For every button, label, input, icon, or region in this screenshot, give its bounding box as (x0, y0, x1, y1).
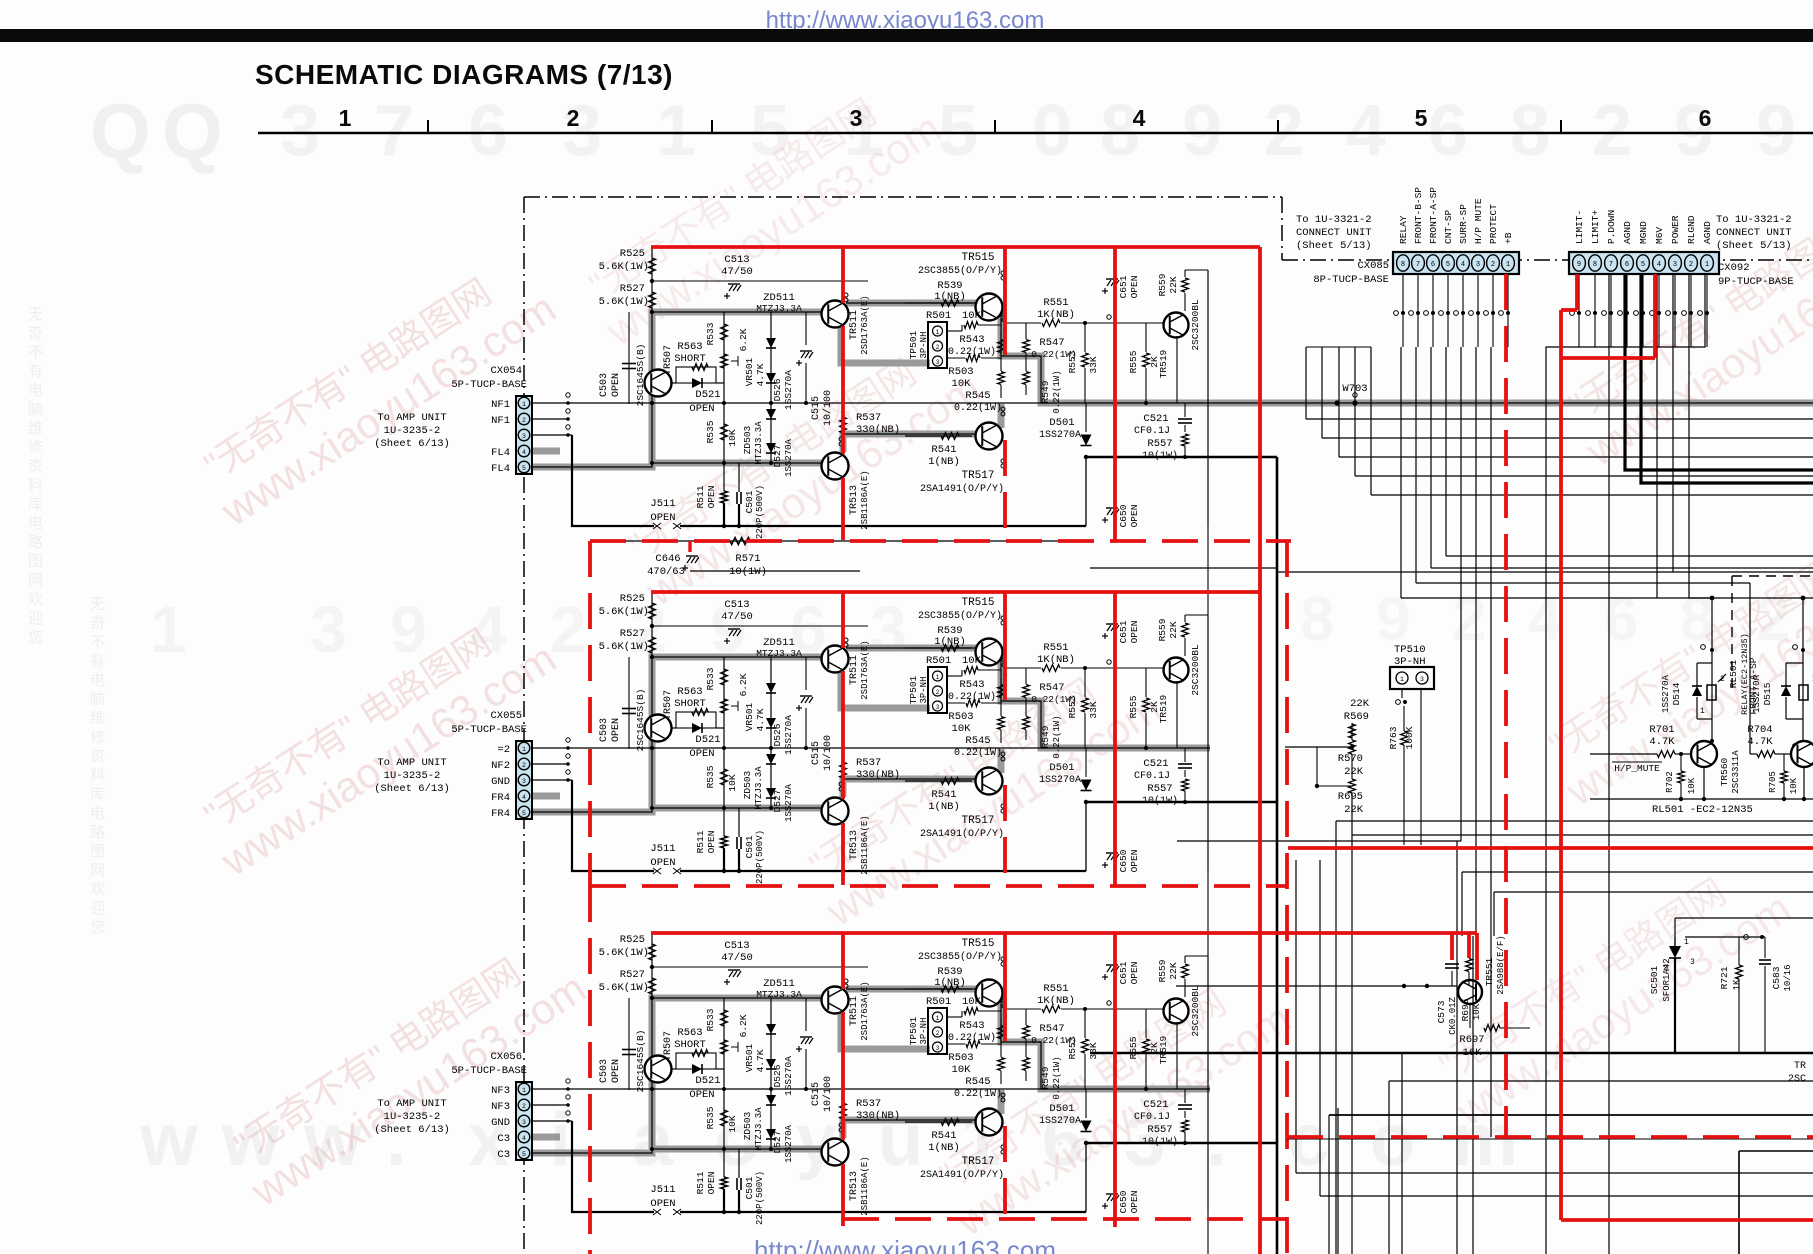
svg-text:D514: D514 (1671, 682, 1682, 705)
svg-text:To AMP UNIT: To AMP UNIT (377, 757, 446, 769)
svg-text:1: 1 (339, 105, 352, 131)
svg-text:(Sheet 5/13): (Sheet 5/13) (1296, 240, 1372, 252)
svg-text:1U-3235-2: 1U-3235-2 (384, 425, 441, 437)
svg-text:3: 3 (1690, 958, 1695, 967)
svg-text:9: 9 (1182, 91, 1222, 171)
svg-text:NF2: NF2 (491, 760, 510, 772)
svg-text:7: 7 (374, 91, 414, 171)
svg-text:R701: R701 (1649, 724, 1674, 736)
svg-text:9P-TUCP-BASE: 9P-TUCP-BASE (1718, 276, 1794, 288)
svg-text:9: 9 (1674, 91, 1714, 171)
svg-text:M6V: M6V (1654, 227, 1665, 244)
svg-text:3: 3 (280, 91, 320, 171)
svg-text:SURR-SP: SURR-SP (1458, 204, 1469, 244)
svg-text:1: 1 (656, 91, 696, 171)
svg-text:R704: R704 (1747, 724, 1772, 736)
svg-text:(Sheet 6/13): (Sheet 6/13) (374, 438, 450, 450)
svg-text:FR4: FR4 (491, 792, 510, 804)
svg-text:R763: R763 (1388, 726, 1399, 749)
svg-text:LIMIT+: LIMIT+ (1590, 209, 1601, 244)
svg-text:1U-3235-2: 1U-3235-2 (384, 1111, 441, 1123)
svg-text:GND: GND (491, 776, 510, 788)
svg-text:5: 5 (938, 91, 978, 171)
svg-text:P.DOWN: P.DOWN (1606, 210, 1617, 244)
svg-text:8: 8 (1510, 91, 1550, 171)
svg-text:R571: R571 (735, 553, 760, 565)
svg-text:FRONT-B-SP: FRONT-B-SP (1413, 187, 1424, 244)
svg-text:GND: GND (491, 1117, 510, 1129)
svg-text:SCHEMATIC DIAGRAMS (7/13): SCHEMATIC DIAGRAMS (7/13) (255, 59, 673, 90)
svg-text:6: 6 (1699, 105, 1712, 131)
svg-text:2: 2 (1689, 261, 1693, 269)
svg-text:2: 2 (1663, 964, 1668, 973)
svg-text:RLGND: RLGND (1686, 215, 1697, 244)
svg-text:1: 1 (150, 592, 187, 666)
svg-text:CX054: CX054 (490, 365, 522, 377)
svg-text:POWER: POWER (1670, 215, 1681, 244)
svg-text:RELAY: RELAY (1398, 215, 1409, 244)
svg-text:AGND: AGND (1702, 221, 1713, 244)
svg-text:LIMIT-: LIMIT- (1574, 210, 1585, 244)
svg-text:10K: 10K (1687, 777, 1697, 794)
svg-text:2: 2 (1720, 675, 1725, 684)
svg-text:AGND: AGND (1622, 221, 1633, 244)
svg-text:CONNECT UNIT: CONNECT UNIT (1296, 227, 1372, 239)
svg-text:TR551: TR551 (1484, 957, 1495, 986)
svg-text:5: 5 (1446, 261, 1450, 269)
svg-text:CX056: CX056 (490, 1051, 522, 1063)
svg-text:6: 6 (468, 91, 508, 171)
svg-text:1: 1 (1700, 707, 1705, 716)
svg-text:CNT-SP: CNT-SP (1443, 209, 1454, 244)
svg-text:3: 3 (310, 592, 347, 666)
svg-text:22K: 22K (1344, 766, 1364, 778)
svg-text:NF1: NF1 (491, 415, 510, 427)
svg-text:=2: =2 (497, 744, 510, 756)
svg-text:1: 1 (1705, 261, 1709, 269)
svg-text:0: 0 (1032, 91, 1072, 171)
svg-text:8P-TUCP-BASE: 8P-TUCP-BASE (1313, 274, 1389, 286)
svg-text:FRONT-A-SP: FRONT-A-SP (1428, 187, 1439, 244)
svg-text:RL501 -EC2-12N35: RL501 -EC2-12N35 (1652, 804, 1753, 816)
svg-text:9: 9 (390, 592, 427, 666)
svg-text:8: 8 (1100, 91, 1140, 171)
svg-text:FR4: FR4 (491, 808, 510, 820)
svg-text:w: w (139, 1098, 198, 1181)
svg-text:http://www.xiaoyu163.com: http://www.xiaoyu163.com (754, 1235, 1056, 1254)
svg-text:6: 6 (1428, 91, 1468, 171)
svg-text:1SS270A: 1SS270A (1661, 675, 1671, 713)
svg-text:4.7K: 4.7K (1747, 736, 1773, 748)
svg-text:6: 6 (1431, 261, 1435, 269)
svg-text:+B: +B (1503, 232, 1514, 244)
svg-text:5P-TUCP-BASE: 5P-TUCP-BASE (451, 724, 527, 736)
svg-text:8: 8 (1401, 261, 1405, 269)
svg-text:H/P MUTE: H/P MUTE (1473, 198, 1484, 244)
svg-text:10K: 10K (1789, 777, 1799, 794)
svg-text:4: 4 (1461, 261, 1465, 269)
svg-text:R702: R702 (1665, 771, 1675, 793)
svg-text:22K: 22K (1350, 698, 1370, 710)
svg-text:To 1U-3321-2: To 1U-3321-2 (1716, 214, 1792, 226)
svg-text:RL501: RL501 (1728, 659, 1739, 688)
svg-text:4.7K: 4.7K (1649, 736, 1675, 748)
svg-text:10/16: 10/16 (1783, 964, 1793, 991)
svg-text:CX055: CX055 (490, 710, 522, 722)
svg-text:5: 5 (1641, 261, 1645, 269)
svg-text:4: 4 (1133, 105, 1146, 131)
svg-text:5P-TUCP-BASE: 5P-TUCP-BASE (451, 1065, 527, 1077)
svg-text:To AMP UNIT: To AMP UNIT (377, 412, 446, 424)
svg-text:1K: 1K (1732, 979, 1742, 990)
svg-text:TP510: TP510 (1394, 644, 1426, 656)
svg-text:9: 9 (1756, 91, 1796, 171)
svg-text:2SC3311A: 2SC3311A (1731, 750, 1741, 794)
svg-text:2: 2 (1592, 91, 1632, 171)
svg-text:CX092: CX092 (1718, 262, 1750, 274)
svg-text:.: . (1206, 1098, 1227, 1181)
svg-text:2: 2 (1452, 585, 1486, 654)
svg-text:6: 6 (1625, 261, 1629, 269)
svg-text:R696: R696 (1460, 998, 1471, 1021)
svg-text:22K: 22K (1344, 804, 1364, 816)
svg-text:(Sheet 6/13): (Sheet 6/13) (374, 1124, 450, 1136)
svg-text:4: 4 (1657, 261, 1661, 269)
svg-text:R570: R570 (1338, 753, 1363, 765)
svg-text:TR560: TR560 (1719, 757, 1730, 786)
svg-text:5: 5 (1415, 105, 1428, 131)
svg-text:C3: C3 (497, 1149, 510, 1161)
svg-text:To 1U-3321-2: To 1U-3321-2 (1296, 214, 1372, 226)
svg-text:(Sheet 5/13): (Sheet 5/13) (1716, 240, 1792, 252)
svg-text:3: 3 (1673, 261, 1677, 269)
svg-text:MGND: MGND (1638, 221, 1649, 244)
svg-text:H/P_MUTE: H/P_MUTE (1614, 763, 1660, 774)
svg-text:1: 1 (1684, 938, 1689, 947)
svg-text:2: 2 (550, 592, 587, 666)
svg-text:NF3: NF3 (491, 1101, 510, 1113)
svg-text:470/63: 470/63 (647, 566, 685, 578)
svg-text:1: 1 (1506, 261, 1510, 269)
svg-text:2: 2 (1264, 91, 1304, 171)
svg-text:Q: Q (90, 87, 151, 175)
svg-text:7: 7 (1609, 261, 1613, 269)
svg-text:C646: C646 (655, 553, 680, 565)
svg-text:1: 1 (1400, 676, 1404, 683)
svg-text:FL4: FL4 (491, 463, 510, 475)
svg-text:FRONT-A-SP: FRONT-A-SP (1748, 657, 1759, 714)
svg-text:C583: C583 (1771, 966, 1782, 989)
svg-text:Q: Q (162, 87, 223, 175)
svg-text:(Sheet 6/13): (Sheet 6/13) (374, 783, 450, 795)
svg-text:To AMP UNIT: To AMP UNIT (377, 1098, 446, 1110)
svg-text:2SC: 2SC (1788, 1074, 1806, 1085)
svg-text:PROTECT: PROTECT (1488, 204, 1499, 244)
svg-text:R721: R721 (1719, 966, 1730, 989)
svg-text:SC501: SC501 (1649, 965, 1660, 994)
svg-text:3: 3 (1420, 676, 1424, 683)
svg-text:9: 9 (1577, 261, 1581, 269)
svg-text:CX085: CX085 (1357, 260, 1389, 272)
svg-text:NF1: NF1 (491, 399, 510, 411)
svg-text:TR: TR (1794, 1061, 1806, 1072)
svg-text:8: 8 (1593, 261, 1597, 269)
svg-text:3: 3 (562, 91, 602, 171)
svg-text:R697: R697 (1459, 1034, 1484, 1046)
svg-text:4: 4 (1346, 91, 1386, 171)
svg-text:3: 3 (870, 592, 907, 666)
svg-text:1U-3235-2: 1U-3235-2 (384, 770, 441, 782)
svg-text:2: 2 (567, 105, 580, 131)
svg-text:D515: D515 (1762, 682, 1773, 705)
svg-text:2: 2 (1491, 261, 1495, 269)
svg-text:C3: C3 (497, 1133, 510, 1145)
svg-text:CONNECT UNIT: CONNECT UNIT (1716, 227, 1792, 239)
svg-text:NF3: NF3 (491, 1085, 510, 1097)
svg-text:FL4: FL4 (491, 447, 510, 459)
svg-text:3: 3 (850, 105, 863, 131)
svg-text:8: 8 (1300, 585, 1334, 654)
svg-text:3: 3 (1476, 261, 1480, 269)
svg-text:R705: R705 (1768, 771, 1778, 793)
svg-text:5P-TUCP-BASE: 5P-TUCP-BASE (451, 379, 527, 391)
svg-text:7: 7 (1416, 261, 1420, 269)
svg-text:10(1W): 10(1W) (729, 566, 767, 578)
svg-text:C573: C573 (1436, 1000, 1447, 1023)
svg-text:R569: R569 (1344, 711, 1369, 723)
